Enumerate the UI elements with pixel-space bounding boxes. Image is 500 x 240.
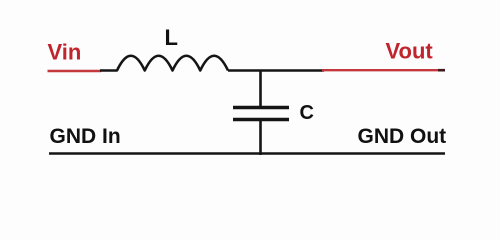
capacitor C	[233, 108, 289, 120]
wire capacitor bottom lead	[259, 121, 262, 155]
svg-text:GND In: GND In	[50, 125, 121, 148]
svg-text:GND Out: GND Out	[358, 125, 447, 148]
wire Vout dark end tip	[438, 69, 445, 72]
svg-text:Vin: Vin	[48, 40, 82, 65]
wire Vout (red, top-right)	[322, 69, 439, 71]
inductor L	[100, 56, 228, 71]
svg-text:L: L	[165, 25, 178, 50]
wire top middle (inductor to node A)	[228, 69, 324, 72]
wire Vin (red, top-left)	[48, 70, 102, 72]
svg-text:C: C	[300, 102, 314, 124]
svg-text:Vout: Vout	[386, 39, 434, 64]
wire ground (bottom rail)	[49, 152, 445, 154]
wire capacitor top lead	[259, 70, 262, 107]
